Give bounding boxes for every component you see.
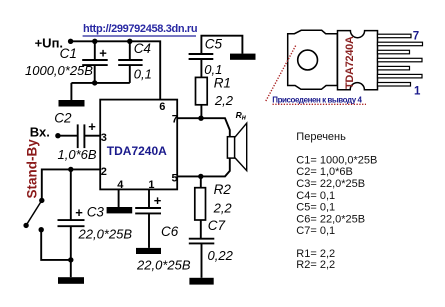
svg-text:7: 7 <box>172 113 178 125</box>
svg-text:7: 7 <box>413 31 419 43</box>
svg-text:C3= 22,0*25В: C3= 22,0*25В <box>296 178 365 190</box>
svg-text:R1= 2,2: R1= 2,2 <box>296 248 335 260</box>
capacitor C4 <box>118 41 142 83</box>
node: +Up terminal <box>68 39 73 44</box>
ground (C6) <box>136 248 161 254</box>
wire: pin 2 to switch <box>42 169 100 198</box>
package tab <box>288 30 338 89</box>
svg-text:C2: C2 <box>54 111 72 126</box>
wire: pin 7 to speaker <box>177 118 230 137</box>
svg-text:TDA7240A: TDA7240A <box>107 144 167 158</box>
svg-text:3: 3 <box>101 132 107 144</box>
svg-text:1,0*6В: 1,0*6В <box>58 147 97 162</box>
capacitor C1 <box>82 41 108 83</box>
capacitor C7 <box>189 220 215 278</box>
url label <box>83 23 198 36</box>
wire: pin 5 to speaker <box>177 158 230 176</box>
ground (pin 4) <box>107 207 133 213</box>
package pin 3 <box>378 66 410 70</box>
svg-text:C5: C5 <box>205 37 223 52</box>
svg-text:2: 2 <box>101 166 107 178</box>
node: pin5/R2 junction <box>198 174 203 179</box>
wire: R1 to node <box>200 105 202 118</box>
node: bottom bus junction <box>92 80 97 85</box>
svg-text:Вх.: Вх. <box>30 125 50 140</box>
svg-text:C6= 22,0*25В: C6= 22,0*25В <box>296 213 365 225</box>
resistor R2 <box>200 176 202 187</box>
package pin 6 <box>378 42 423 46</box>
svg-text:Перечень: Перечень <box>296 131 346 143</box>
node: C1 top junction <box>92 39 97 44</box>
dotted pointer line <box>266 45 296 101</box>
svg-text:R1: R1 <box>214 76 231 91</box>
svg-text:+: + <box>88 119 96 134</box>
wire: +U supply rail to pin 6 <box>71 41 161 99</box>
speaker Rn <box>227 123 246 170</box>
svg-text:C6: C6 <box>161 224 179 239</box>
dotted underline <box>273 103 367 105</box>
svg-text:TDA7240A: TDA7240A <box>344 36 356 89</box>
svg-text:+: + <box>75 205 83 220</box>
svg-text:+: + <box>154 193 162 208</box>
svg-text:0,22: 0,22 <box>208 248 234 263</box>
svg-text:http://299792458.3dn.ru: http://299792458.3dn.ru <box>83 23 197 35</box>
ground (C3) <box>58 277 84 284</box>
package body <box>338 31 378 90</box>
svg-text:C4= 0,1: C4= 0,1 <box>296 190 335 202</box>
op-amp U1 TDA7240A body <box>100 100 178 192</box>
ground (C7) <box>189 278 213 285</box>
capacitor C3 <box>58 169 85 277</box>
resistor R1 <box>196 77 208 104</box>
svg-text:5: 5 <box>172 172 178 184</box>
svg-text:Stand-By: Stand-By <box>24 139 39 199</box>
svg-text:C3: C3 <box>87 205 105 220</box>
node: C3 bottom junction <box>68 257 73 262</box>
capacitor C6 <box>135 189 162 248</box>
svg-text:22,0*25В: 22,0*25В <box>78 226 133 241</box>
svg-text:C5= 0,1: C5= 0,1 <box>296 202 335 214</box>
switch SA1 <box>23 198 44 233</box>
package pin 7 <box>378 34 412 38</box>
parts list <box>296 131 377 271</box>
svg-text:C1: C1 <box>60 46 77 61</box>
package pin 5 <box>378 50 410 54</box>
svg-text:C7= 0,1: C7= 0,1 <box>296 225 335 237</box>
svg-text:Присоеденен к выводу 4: Присоеденен к выводу 4 <box>272 95 362 104</box>
wire: switch to bottom bus <box>41 230 71 260</box>
svg-text:R2= 2,2: R2= 2,2 <box>296 259 335 271</box>
svg-text:C2= 1,0*6В: C2= 1,0*6В <box>296 166 353 178</box>
svg-text:0,1: 0,1 <box>134 66 152 81</box>
svg-text:C7: C7 <box>208 218 226 233</box>
svg-text:1: 1 <box>414 86 421 98</box>
svg-text:2,2: 2,2 <box>214 93 234 108</box>
svg-text:R2: R2 <box>214 182 232 197</box>
node: C3 top junction <box>68 167 73 172</box>
package pin 1 <box>378 83 411 87</box>
svg-text:+: + <box>99 46 107 61</box>
svg-text:C1= 1000,0*25В: C1= 1000,0*25В <box>296 154 377 166</box>
package pin 2 <box>378 74 423 78</box>
svg-text:C4: C4 <box>134 41 151 56</box>
svg-text:1000,0*25В: 1000,0*25В <box>25 63 93 78</box>
package tab hole <box>298 50 318 70</box>
ground (C5) <box>230 54 256 60</box>
svg-text:2,2: 2,2 <box>213 201 233 216</box>
svg-text:22,0*25В: 22,0*25В <box>136 258 191 273</box>
wire: C1/C4 bottom bus <box>71 83 129 100</box>
package pin 4 <box>378 58 423 62</box>
node: input terminal <box>55 133 60 138</box>
ground (C1 bus) <box>59 100 85 107</box>
svg-text:0,1: 0,1 <box>204 62 222 77</box>
svg-text:6: 6 <box>159 101 165 113</box>
node: pin7/R1 junction <box>198 116 203 121</box>
wire: pin 4 to ground <box>118 189 120 207</box>
node: C4 top junction <box>127 39 132 44</box>
capacitor C5 <box>189 36 243 78</box>
capacitor C2 <box>58 119 100 148</box>
